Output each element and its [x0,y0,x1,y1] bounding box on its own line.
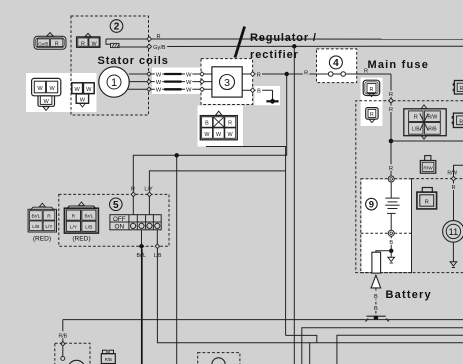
svg-text:R/B: R/B [58,333,67,339]
svg-text:1: 1 [111,77,117,89]
svg-text:R: R [459,119,463,125]
junction on Gy/B wire [292,44,296,48]
regulator/rectifier body square, circled 3 [212,67,242,97]
svg-text:W: W [186,72,192,78]
battery terminal circle bottom [388,230,394,236]
svg-text:R/W: R/W [428,114,438,120]
wire B corner to join L/B run [286,335,317,342]
connector W W / W (harness side, double border) [32,78,61,110]
junction and wire to right edge [389,139,463,144]
circled 2 [110,20,123,33]
connector R/B small [101,350,115,363]
svg-text:W: W [80,97,86,103]
node diamond where R wire crosses dashed border [389,98,394,103]
main switch contact table [110,215,161,230]
svg-text:Main fuse: Main fuse [368,59,430,71]
svg-text:3: 3 [224,77,230,89]
horn dashed box bottom left [55,343,90,364]
wire R output of regulator to main fuse [242,69,331,78]
circled 5 [110,198,123,211]
wire B from battery minus [388,236,395,252]
svg-text:B: B [205,120,209,126]
svg-text:R: R [131,187,135,193]
wire L/B from switch down [154,230,463,343]
svg-text:R: R [55,42,59,48]
wire B output of regulator to ground [242,87,272,95]
wire R from fuse down to battery [388,74,395,177]
dashed box with circled component bottom center [198,353,240,364]
connector R R/W / L/B R/B [404,105,446,139]
right edge partial connector bottom [452,113,463,127]
svg-text:R: R [370,112,374,118]
svg-text:(RED): (RED) [33,236,51,243]
wire R/B down to horn [55,320,70,361]
pickup coil symbol [106,39,149,48]
wire corner to right edge mid [302,328,463,364]
svg-text:W: W [156,88,162,94]
battery ground arrow [388,251,395,263]
svg-text:4: 4 [333,58,339,69]
svg-text:Br/L: Br/L [84,214,93,220]
main fuse dashed box, circled 4 [329,56,342,69]
connector B X R / W W W below regulator [200,111,237,140]
ground under breaker 11 [450,242,457,267]
three W wires from stator to regulator [128,74,212,89]
wire Gy/B from pickup to right edge [147,43,463,51]
svg-text:R: R [389,107,393,113]
svg-text:R/W: R/W [423,165,433,171]
battery dashed box 9 [361,179,412,273]
circled 9 [366,198,378,210]
connector Gy/B R (harness side) [34,33,66,50]
svg-text:L/Y: L/Y [70,225,78,231]
svg-text:L/Y: L/Y [45,224,53,230]
svg-text:R/B: R/B [428,127,437,133]
svg-text:Battery: Battery [386,289,432,301]
svg-text:W: W [156,72,162,78]
svg-text:R: R [389,166,393,172]
svg-text:R: R [304,71,308,77]
svg-text:R/W: R/W [447,170,457,176]
off page arrow to battery lead [371,275,381,288]
svg-text:9: 9 [369,200,374,211]
svg-text:R: R [389,92,393,98]
svg-text:Gy/B: Gy/B [153,45,166,51]
wire drop from R feed junction to bottom edge [176,155,178,364]
svg-text:(RED): (RED) [72,236,90,243]
svg-text:11: 11 [448,227,458,238]
svg-text:Gy/B: Gy/B [38,41,48,46]
wire L/Y to switch [144,171,285,215]
svg-text:R: R [47,214,51,220]
chassis ground bar of battery [365,316,389,322]
svg-text:B: B [257,89,261,95]
svg-text:W: W [228,132,234,138]
svg-text:W: W [186,80,192,86]
svg-text:R: R [156,34,160,40]
wire to main fuse body [376,251,391,252]
svg-text:W: W [86,87,92,93]
connector R/W with cap [420,156,436,174]
main fuse box 4 dashed outline with white fill [317,49,357,83]
svg-text:W: W [43,99,49,105]
connector R Br/L / L/Y L/B (RED) switch side [64,202,98,243]
svg-text:R/B: R/B [105,357,112,362]
right edge partial connector top [453,81,463,95]
svg-text:W: W [75,87,81,93]
wire Gy/B drop to bottom edge [293,46,295,364]
regulator box 3 dashed outline with white fill [201,59,253,105]
svg-text:rectifier: rectifier [250,49,299,61]
svg-text:R: R [370,87,374,93]
connector Br/L R / L/B L/Y (RED) harness side [28,203,56,243]
svg-text:Br/L: Br/L [31,214,40,220]
svg-text:5: 5 [113,200,119,211]
svg-text:B: B [389,240,393,246]
junction at battery minus [389,249,393,253]
svg-text:Stator coils: Stator coils [98,55,169,67]
svg-text:2: 2 [114,22,120,33]
svg-text:R: R [364,69,368,75]
wire B from magneto connector down and right [206,147,286,336]
circuit breaker circled 11 [443,221,463,243]
dashed box around stator coils and pickup (components 1,2) [71,16,149,115]
svg-text:L/B: L/B [412,127,420,133]
svg-text:R: R [451,185,455,191]
svg-text:L/Y: L/Y [144,187,153,193]
svg-text:W: W [186,88,192,94]
svg-text:W: W [156,80,162,86]
svg-text:R: R [72,214,76,220]
connector R (harness side) above dashed border [363,80,380,96]
connector R with cap (starter relay side) [417,188,437,209]
connector R W (pickup side) [77,33,101,47]
svg-text:R: R [228,120,232,126]
svg-text:R: R [414,114,418,120]
svg-text:W: W [49,86,55,92]
wire harness white background panels [26,68,411,273]
battery terminal circle top [388,176,394,182]
svg-text:R: R [425,200,429,206]
wire R regulator to switch [131,74,287,215]
svg-text:R: R [81,41,85,47]
wire R from pickup to right edge [147,34,463,41]
svg-text:W: W [216,132,222,138]
svg-text:R: R [257,72,261,78]
battery cell symbol [385,182,399,230]
svg-text:OFF: OFF [113,216,126,223]
fuse body rectangle [372,252,381,273]
svg-text:Regulator /: Regulator / [250,32,317,44]
svg-text:W: W [37,86,43,92]
ground bus wire bottom [63,319,463,321]
wire corner to right edge low [337,335,463,364]
dashed wire B to chassis ground [373,288,380,315]
W wire labels and node diamonds [147,71,204,94]
connector R (relay side) below dashed border [366,108,378,123]
svg-text:L/B: L/B [32,224,39,230]
wire Br/L from switch down [136,230,146,364]
svg-text:B: B [374,294,378,300]
connector W W / W (magneto side) [72,83,94,107]
svg-text:L/B: L/B [85,225,92,231]
main switch dashed box 5 [59,194,169,246]
leader line to regulator label [235,27,245,58]
AC magneto circle 1 [99,67,129,97]
wire drop to bottom edge [309,343,311,364]
svg-text:ON: ON [115,223,125,230]
svg-text:B: B [374,306,378,312]
main fuse element [328,72,391,77]
large dashed box right assembly [356,101,463,273]
ground of regulator [266,90,278,104]
wire R/W to breaker 11 [447,165,463,220]
